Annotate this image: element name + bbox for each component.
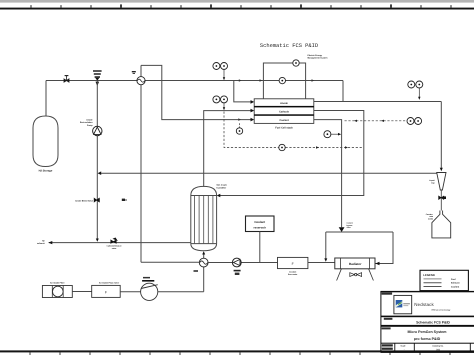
node H2 exhaust arrow <box>48 241 52 244</box>
wire anode outlet line <box>314 101 442 103</box>
label liquid trap <box>429 179 435 184</box>
label condensate bottle <box>426 213 434 221</box>
ruler ticks top <box>31 4 451 7</box>
wire flow arrow coolant in <box>238 118 241 121</box>
node arrow into anode recirc leg <box>98 171 102 175</box>
wire cathode outlet to humidifier shell <box>220 111 364 196</box>
heat exchanger HX1 on coolant / H2 line crossing <box>140 65 142 262</box>
radiator legs <box>337 269 342 281</box>
label anode recirculation pump <box>80 119 94 127</box>
cell revision dense text <box>382 344 393 346</box>
tank T1 H2 storage <box>33 116 58 167</box>
wire EEMS loop <box>263 63 305 99</box>
valve V2 anode bleed valve <box>94 198 99 202</box>
node coolant inlet arrow to stack <box>251 118 255 122</box>
valve V4 coolant bypass three-way <box>339 227 345 232</box>
title block corner tab <box>382 293 393 295</box>
svg-text:Coolant: Coolant <box>451 286 459 289</box>
svg-text:008: 008 <box>436 348 441 351</box>
svg-text:LEGEND: LEGEND <box>423 273 435 277</box>
wire anode feed branch <box>234 81 251 102</box>
instrument pair coolant outlet <box>407 118 414 125</box>
svg-text:Anode Bleed Valve: Anode Bleed Valve <box>75 199 94 202</box>
label blower tag <box>143 277 150 279</box>
svg-text:exhaust: exhaust <box>37 242 45 245</box>
svg-text:bottle: bottle <box>428 217 433 220</box>
svg-text:pro forma P&ID: pro forma P&ID <box>414 337 441 341</box>
svg-text:Coolant: Coolant <box>254 220 265 224</box>
svg-text:Electric Energy: Electric Energy <box>308 54 323 57</box>
blower B1 cathode air compressor <box>141 283 158 300</box>
ruler ticks bottom <box>30 352 450 355</box>
title block bottom border <box>381 351 474 353</box>
tank T3 condensate bottle <box>432 211 451 238</box>
instrument PI/TI pair1 on H2 header <box>213 63 220 70</box>
wire sensor T1 lead <box>330 133 339 135</box>
node small tag near bleed valve <box>122 199 125 201</box>
title block divider 2 <box>381 325 474 327</box>
wire anode recirculation drop leg <box>96 81 98 241</box>
svg-text:Gas to gas: Gas to gas <box>217 184 228 187</box>
wire signal dashed to humidity sensor <box>224 112 364 148</box>
svg-text:Anode: Anode <box>86 119 93 122</box>
meter F1 coolant flow meter <box>278 257 308 268</box>
wire anode outlet drop to liquid trap <box>440 102 442 170</box>
wire air riser through humidifier bottom <box>203 253 205 292</box>
instrument pair PI/TI cathode inlet <box>213 96 220 103</box>
label bypass valve <box>347 222 354 229</box>
svg-text:valve: valve <box>112 247 117 250</box>
svg-text:Air Intake Flow meter: Air Intake Flow meter <box>99 282 119 285</box>
svg-text:Drawing No.: Drawing No. <box>432 344 444 347</box>
wire filter to flow meter <box>72 291 91 293</box>
svg-text:Nedstack: Nedstack <box>414 302 434 307</box>
wire radiator feed drop <box>375 232 393 264</box>
legend line fuel <box>424 278 442 280</box>
svg-text:Pump: Pump <box>87 124 93 127</box>
legend line coolant <box>424 286 442 288</box>
wire flow meter to blower <box>120 291 140 293</box>
border frame bottom ruler line <box>0 350 474 352</box>
heat exchanger HX2 air/coolant crossing <box>199 258 208 267</box>
wire instrument lead cathode inlet <box>223 102 225 109</box>
svg-text:Recirculation: Recirculation <box>80 121 93 124</box>
stack row divider cathode/coolant <box>254 114 314 116</box>
node arrow air into humidifier <box>202 251 205 254</box>
wire H2 header end drop to anode outlet <box>342 81 344 102</box>
svg-text:Coolant: Coolant <box>279 119 288 122</box>
svg-text:Air Intake Filter: Air Intake Filter <box>50 282 65 285</box>
wire coolant main line <box>141 261 199 263</box>
node arrow into humidifier shell <box>217 194 221 198</box>
wire coolant supply top loop <box>141 65 251 119</box>
wire coolant bypass drop <box>325 232 327 260</box>
wire reservoir stem <box>259 232 261 263</box>
wire dashed line flow arrows <box>316 146 319 148</box>
instrument pair PI/TI anode outlet <box>408 81 415 88</box>
svg-text:Exhaust: Exhaust <box>451 282 460 285</box>
wire instrument lead anode outlet <box>418 87 420 98</box>
tank T2 coolant reservoir <box>246 216 275 232</box>
valve PRV1 pressure reducing valve (spring) at anode recirc junction <box>93 71 102 77</box>
wire bypass header <box>326 231 393 233</box>
legend labels <box>451 278 460 289</box>
liquid trap F3 funnel <box>437 173 446 191</box>
wire instrument lead pair1 <box>223 69 225 79</box>
pump P1 anode recirculation pump <box>93 126 102 135</box>
svg-text:Micro PemGen System: Micro PemGen System <box>408 330 447 334</box>
svg-text:Management System: Management System <box>308 57 328 60</box>
wire signal dashed coolant temperature <box>345 120 407 122</box>
valve V5 drain valve <box>439 196 446 199</box>
wire blower to air riser <box>158 291 204 293</box>
legend line exhaust <box>424 282 442 284</box>
title block row border <box>381 343 474 344</box>
legend box <box>420 270 468 290</box>
svg-text:Schematic FCS P&ID: Schematic FCS P&ID <box>416 320 450 324</box>
label electric energy management system <box>308 54 328 60</box>
radiator R1 <box>335 258 375 269</box>
svg-text:Fuel Cell stack: Fuel Cell stack <box>275 126 293 129</box>
wire condensate return line <box>99 172 437 174</box>
stack row divider anode/cathode <box>254 106 314 108</box>
svg-text:H2 Storage: H2 Storage <box>39 170 53 173</box>
svg-text:Scale: Scale <box>401 344 406 347</box>
svg-text:reservoir: reservoir <box>254 226 267 230</box>
svg-text:flow meter: flow meter <box>288 273 298 276</box>
svg-text:Radiator: Radiator <box>349 262 362 266</box>
title block tab 3 <box>382 327 391 329</box>
logo mark <box>396 300 403 307</box>
sensor S1 on signal line <box>279 144 285 150</box>
label regulator tag <box>132 71 136 72</box>
svg-text:Cathode: Cathode <box>279 110 290 113</box>
title block divider 1 <box>381 316 474 318</box>
wire flow arrows on H2 header <box>260 79 263 82</box>
node anode inlet arrow to stack <box>251 100 255 104</box>
label HX2 tag <box>194 270 199 272</box>
title block outer border <box>381 291 474 292</box>
valve V1 manual shutoff on H2 line <box>64 76 69 83</box>
humidifier H1 gas-to-gas <box>191 186 217 250</box>
svg-text:F: F <box>292 262 294 266</box>
logo box <box>394 295 412 313</box>
border frame top gray strip <box>0 0 474 3</box>
wire H2 supply header <box>46 80 343 82</box>
svg-text:Fuel: Fuel <box>451 278 456 281</box>
filter FL1 air intake filter <box>42 286 72 298</box>
wire tank riser <box>45 81 47 117</box>
svg-text:valve: valve <box>347 226 351 229</box>
pump P2 coolant pump <box>232 258 241 267</box>
title block bottom cells <box>394 344 396 352</box>
node arrow into radiator <box>375 262 379 265</box>
title block tab 2 <box>384 318 393 320</box>
sensor T2 lead to coolant inlet (dashed) <box>239 122 241 128</box>
meter U1 electric energy management system <box>293 60 299 66</box>
label cathode exhaust valve <box>107 245 122 250</box>
fuel cell stack U2 <box>254 99 314 124</box>
wire coolant to radiator <box>308 262 335 264</box>
meter A1 on H2 header inside EEMS loop <box>279 77 285 83</box>
svg-text:F: F <box>105 291 107 295</box>
meter F2 air intake flow meter <box>92 285 121 297</box>
node arrow anode bleed into exhaust line <box>96 239 99 242</box>
wire trap to drain valve <box>440 190 442 211</box>
label gas to gas humidifier <box>217 184 228 190</box>
wire cathode exhaust line <box>49 242 191 244</box>
wire coolant outlet from stack <box>314 120 342 228</box>
border frame top ruler line <box>0 8 474 10</box>
node cathode inlet arrow to stack <box>251 109 255 113</box>
radiator fan <box>350 273 362 277</box>
svg-text:humidifier: humidifier <box>217 186 227 189</box>
svg-text:Schematic FCS P&ID: Schematic FCS P&ID <box>260 43 318 49</box>
sensor T1 coolant line tap <box>324 131 331 138</box>
valve V3 exhaust check valve <box>111 238 118 244</box>
wire cathode inlet from humidifier <box>204 111 251 187</box>
svg-text:Anode: Anode <box>280 102 288 105</box>
label H2 exhaust <box>37 239 45 245</box>
